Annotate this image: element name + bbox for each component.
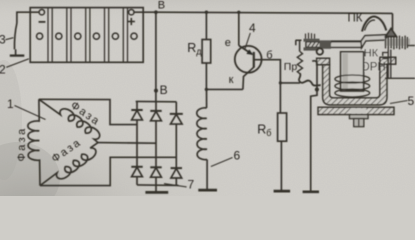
battery cell divider 4 <box>105 8 109 63</box>
ground Rб <box>274 190 291 193</box>
wire Rб to ground <box>280 141 282 190</box>
top bus wire B <box>156 12 393 13</box>
leader for 4 <box>245 33 251 50</box>
junction at B vertical <box>154 10 158 14</box>
wire collector node to field coil <box>206 89 208 108</box>
core of electromagnet <box>341 52 364 91</box>
mounting bolt washer <box>350 115 369 119</box>
label 4 <box>249 21 256 35</box>
emitter wire <box>238 12 240 45</box>
svg-text:5: 5 <box>408 94 415 108</box>
junction blob on B wire <box>154 89 158 93</box>
junction top bus / emitter <box>237 11 240 14</box>
svg-text:НК: НК <box>364 48 379 60</box>
armature raised right end <box>361 35 387 48</box>
svg-text:б: б <box>266 128 271 138</box>
rectifier top bus <box>136 100 177 102</box>
label ОРН <box>361 62 386 74</box>
ground relay <box>303 190 319 193</box>
flexible lead wavy <box>299 73 321 85</box>
field coil 6 <box>197 108 207 160</box>
label к <box>229 74 234 86</box>
battery cell divider 5 <box>123 8 127 63</box>
phase wire 2 to rectifier <box>98 142 156 145</box>
leader for 3 <box>6 38 14 40</box>
diode VD4 bottom <box>131 167 142 185</box>
svg-text:3: 3 <box>0 33 6 47</box>
label B top <box>158 0 165 12</box>
terminal insulator cone <box>386 29 397 37</box>
label Фаза top <box>68 99 102 128</box>
wire coil to ground <box>206 160 208 190</box>
label 3 <box>0 33 6 47</box>
label Rб <box>257 123 271 139</box>
switch bottom bar <box>10 54 24 56</box>
svg-text:ПК: ПК <box>348 13 363 25</box>
svg-text:4: 4 <box>249 21 256 35</box>
wire bus to Rd <box>205 12 207 39</box>
switch lower stub <box>15 49 17 54</box>
transistor VT circle <box>235 46 262 73</box>
label Фаза left <box>16 126 28 161</box>
yoke cup body <box>323 64 387 105</box>
wire НК to right edge <box>385 77 415 79</box>
phase wire 1 to rectifier <box>39 99 137 124</box>
battery terminal minus <box>39 10 44 15</box>
rectifier ground stub <box>155 185 157 191</box>
label B middle <box>160 83 168 97</box>
label Фаза bottom <box>50 136 84 165</box>
leader for 5 <box>390 101 408 104</box>
svg-text:1: 1 <box>7 97 14 111</box>
bracket down to frame <box>388 64 391 79</box>
label 2 <box>0 63 6 77</box>
armature hatched block <box>304 33 363 51</box>
label НК <box>364 48 379 60</box>
svg-text:B: B <box>160 83 168 97</box>
label ПК <box>348 13 363 25</box>
resistor Rд <box>202 40 211 64</box>
ground field coil <box>198 189 217 192</box>
svg-text:б: б <box>266 50 272 62</box>
label 5 <box>408 94 415 108</box>
junction dot base node <box>279 81 282 84</box>
diode VD1 top <box>131 101 142 166</box>
diode VD2 top <box>150 102 161 168</box>
battery cell divider 2 <box>67 8 71 63</box>
collector wire to Rd node <box>206 88 243 90</box>
transistor base bar <box>253 52 255 68</box>
label Rд <box>187 41 202 57</box>
collector lead <box>243 67 254 89</box>
diode VD5 bottom <box>150 167 161 185</box>
battery cell circles <box>37 33 138 39</box>
junction top bus / Rд <box>205 11 208 14</box>
battery terminal plus <box>129 10 134 15</box>
coil winding turns <box>335 75 370 97</box>
emitter lead with arrow <box>239 46 252 55</box>
winding phase bottom (Фаза) <box>40 143 98 186</box>
terminal screw ribbed <box>385 36 411 50</box>
svg-text:2: 2 <box>0 63 6 77</box>
svg-text:е: е <box>225 37 231 49</box>
diode VD3 top <box>170 102 183 168</box>
label 1 <box>7 97 14 111</box>
battery 2 box <box>30 8 143 63</box>
leader for 2 <box>6 59 29 68</box>
resistor Rб <box>278 113 287 141</box>
НК contact bracket <box>383 50 391 64</box>
relay frame wire down to ground <box>311 64 317 191</box>
coil end hook <box>312 61 317 65</box>
vertical wire B to rectifier <box>155 12 157 101</box>
base wire <box>254 60 281 113</box>
leader for 6 <box>211 158 233 167</box>
battery cell divider 1 <box>48 8 52 63</box>
svg-text:д: д <box>196 47 202 57</box>
wire bus down to terminal <box>392 13 394 30</box>
leader for 1 <box>15 106 46 120</box>
wire from plus terminal to node B <box>134 11 156 13</box>
svg-text:R: R <box>257 123 266 137</box>
battery cell divider 3 <box>86 8 90 63</box>
wire from screw tip to right edge <box>408 45 415 47</box>
wire from minus terminal to switch <box>17 12 39 23</box>
base plate hatched <box>318 107 394 114</box>
base node to relay wire <box>280 82 300 84</box>
svg-text:Пр: Пр <box>284 61 298 73</box>
winding phase left (Фаза) <box>28 99 40 185</box>
armature pivot curl <box>317 48 323 54</box>
winding phase top (Фаза) <box>39 99 100 142</box>
yoke cup right flange <box>380 57 396 64</box>
mounting bolt nut <box>354 119 364 127</box>
label Пр <box>284 61 298 73</box>
svg-text:к: к <box>229 74 234 86</box>
svg-text:6: 6 <box>234 149 241 163</box>
label 6 <box>234 149 241 163</box>
yoke cup left flange <box>317 58 330 65</box>
svg-text:Фаза: Фаза <box>16 126 28 161</box>
svg-text:R: R <box>187 41 196 55</box>
svg-text:B: B <box>158 0 165 12</box>
spring hook post <box>296 40 302 51</box>
svg-text:7: 7 <box>188 178 195 192</box>
label б <box>266 50 272 62</box>
leader for 7 <box>164 184 187 187</box>
rectifier bottom bus <box>137 184 179 187</box>
label 7 <box>188 178 195 192</box>
wire Rd to collector node <box>205 63 207 89</box>
switch 3 blade <box>14 23 16 49</box>
junction dot relay ground wire <box>315 87 319 91</box>
ground rectifier <box>145 191 168 194</box>
diode VD6 bottom <box>171 168 182 185</box>
spring zigzag Пр <box>297 52 302 74</box>
label е <box>225 37 231 49</box>
junction collector node <box>205 88 208 91</box>
contact arm ПК curve <box>362 17 386 32</box>
phase wire 3 to rectifier <box>40 157 176 185</box>
